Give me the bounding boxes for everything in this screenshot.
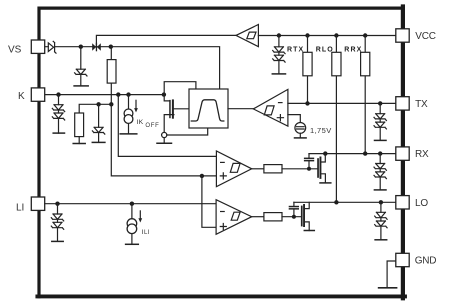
- wire LO clamp stack: [380, 202, 382, 240]
- wire RX line: [309, 153, 396, 155]
- wire shared plus to comparator2: [202, 176, 216, 227]
- node LO RLO junction: [334, 200, 338, 204]
- ground for K resistor: [73, 143, 85, 145]
- transil bidirectional clamp on VS: [92, 43, 101, 52]
- node shared plus junction: [200, 174, 204, 178]
- svg-text:RRX: RRX: [344, 46, 362, 53]
- pin K box: [31, 88, 44, 101]
- wire RX clamp stack: [379, 154, 381, 190]
- op-amp U2 comparator LI: [216, 200, 252, 235]
- wire resistor to M1 gate: [282, 168, 317, 170]
- IC body border: [37, 7, 404, 299]
- node RX RRX junction: [363, 151, 367, 155]
- wire filter box output: [228, 108, 253, 110]
- label IK OFF: [136, 119, 159, 129]
- svg-text:GND: GND: [415, 256, 437, 267]
- zener VCC clamp lower: [273, 55, 285, 62]
- transistor M1 gate bar: [317, 158, 319, 178]
- pin RX box: [396, 147, 409, 160]
- svg-text:IK: IK: [136, 119, 143, 126]
- wire K resistor bottom: [78, 137, 80, 144]
- svg-text:RX: RX: [415, 149, 429, 160]
- wire K line: [45, 94, 164, 96]
- wire M1 drain to RX: [321, 154, 325, 162]
- filter pulse curve: [191, 100, 224, 121]
- ground for RX clamp: [374, 189, 386, 191]
- wire transil tap up to inverter output rail: [96, 35, 236, 46]
- svg-text:OFF: OFF: [145, 123, 159, 129]
- svg-text:TX: TX: [415, 99, 428, 110]
- transistor M2 gate bar: [301, 206, 303, 227]
- svg-text:LI: LI: [144, 230, 150, 236]
- ground for VS clamp: [74, 85, 88, 87]
- capacitor C1 plate bottom: [304, 160, 314, 162]
- svg-text:RTX: RTX: [287, 46, 304, 53]
- transistor M0 channel bar: [172, 99, 174, 118]
- wire C1 to gate line: [308, 161, 310, 168]
- arrow ILI: [138, 211, 142, 223]
- wire LI clamp stack: [57, 204, 59, 242]
- arrow IK OFF: [134, 100, 138, 112]
- ground for VCC clamp: [272, 73, 285, 75]
- node C1 gate junction: [307, 167, 311, 171]
- node RX zener junction: [378, 151, 382, 155]
- transistor M1 channel bar: [320, 157, 322, 179]
- capacitor C1 plate top: [304, 158, 314, 160]
- op-amp U4 schmitt comparator TX: [253, 89, 288, 126]
- svg-text:VS: VS: [8, 45, 22, 56]
- resistor on K to node Y: [75, 113, 84, 137]
- wire node Y horizontal: [79, 104, 111, 113]
- zener VCC clamp upper: [273, 47, 285, 54]
- ground for reference: [295, 137, 307, 139]
- voltage source 1.75V: [295, 123, 306, 134]
- wire U1 output: [252, 168, 264, 170]
- zener LO clamp lower: [375, 221, 387, 228]
- ground for switch: [157, 142, 172, 144]
- wire K clamp stack: [58, 95, 60, 134]
- resistor on VS: [107, 60, 116, 84]
- wire GND pin to ground: [387, 261, 396, 288]
- ground for node Y zener: [92, 141, 105, 143]
- zener LI clamp lower: [51, 222, 63, 229]
- label ILI: [142, 229, 150, 236]
- wire TX line: [288, 102, 396, 104]
- node RRX top: [363, 33, 367, 37]
- zener TX clamp upper: [374, 114, 386, 121]
- wire C2 to gate line: [293, 210, 295, 217]
- op-amp U1 comparator K: [216, 151, 251, 187]
- wire VCC rail: [258, 35, 395, 37]
- node RX drain junction: [323, 151, 327, 155]
- diode D1 series VS: [48, 41, 56, 53]
- ground for LO clamp: [375, 239, 387, 241]
- node C2 gate junction: [292, 215, 296, 219]
- wire M2 drain to LO: [305, 202, 309, 208]
- ground for TX clamp: [375, 139, 387, 141]
- wire TX clamp stack: [379, 103, 381, 140]
- node Y junction dot: [109, 102, 113, 106]
- inverter U3 hysteresis buffer: [236, 25, 258, 47]
- transistor M0 gate bar: [169, 100, 171, 118]
- pin TX box: [396, 97, 409, 110]
- wire VS clamp down: [80, 47, 82, 86]
- wire U2 output: [252, 216, 264, 218]
- zener LI clamp upper: [51, 214, 63, 221]
- wire M0 drain to filter box: [174, 108, 189, 110]
- node RLO top: [334, 33, 338, 37]
- wire VS resistor bottom to node Y: [110, 83, 112, 104]
- current source ILI: [127, 219, 137, 234]
- wire node Y zener: [98, 104, 100, 142]
- node TX zener junction: [378, 101, 382, 105]
- resistor U1 output: [264, 165, 282, 173]
- pin GND box: [396, 253, 409, 266]
- ground for ILI: [126, 243, 139, 245]
- node Y zener tap: [96, 102, 100, 106]
- pin LI box: [31, 197, 44, 210]
- zener TX clamp lower: [374, 122, 386, 129]
- node K gate tap: [162, 92, 166, 96]
- svg-text:VCC: VCC: [415, 31, 436, 42]
- zener K clamp upper: [52, 105, 64, 112]
- node K-zener junction: [56, 92, 60, 96]
- zener node Y: [92, 127, 104, 134]
- wire RLO chain: [335, 36, 337, 203]
- wire U4 plus to reference: [288, 115, 300, 123]
- node LO zener junction: [379, 200, 383, 204]
- capacitor C2 plate bottom: [289, 208, 299, 210]
- svg-text:LO: LO: [415, 198, 428, 209]
- resistor RLO: [332, 52, 341, 76]
- zener K clamp lower: [52, 113, 64, 120]
- node K comparator tap: [116, 92, 120, 96]
- node LI zener junction: [55, 202, 59, 206]
- wire LI line: [45, 203, 216, 205]
- node RTX top: [305, 33, 309, 37]
- wire switch to filter box bottom: [167, 128, 208, 135]
- current source IK OFF: [124, 109, 133, 123]
- capacitor C2 plate top: [289, 206, 299, 208]
- resistor U2 output: [264, 213, 282, 221]
- node VCC clamp junction: [277, 33, 281, 37]
- resistor RRX: [361, 52, 370, 76]
- wire C1 top to RX line: [308, 154, 310, 158]
- ground for K clamp: [53, 132, 64, 134]
- wire M1 source to ground: [321, 174, 325, 183]
- wire IK OFF source: [128, 95, 130, 134]
- wire LO line: [294, 201, 396, 203]
- node VS resistor junction: [109, 45, 113, 49]
- filter box: [189, 89, 228, 128]
- transistor M2 channel bar: [303, 204, 305, 227]
- ground for GND pin: [379, 287, 397, 289]
- node K current source tap: [126, 92, 130, 96]
- switch contact circle: [162, 132, 167, 137]
- node TX RTX junction: [305, 101, 309, 105]
- wire K dot to mosfet gate: [164, 95, 169, 101]
- svg-text:RLO: RLO: [316, 46, 334, 53]
- ground for M2: [304, 230, 314, 232]
- zener RX clamp lower: [374, 172, 386, 179]
- wire VS resistor top: [110, 47, 112, 60]
- resistor RTX: [303, 52, 312, 76]
- wire RRX chain: [364, 36, 366, 154]
- wire K dot to filter box top: [164, 82, 196, 95]
- pin LO box: [396, 196, 409, 209]
- zener LO clamp upper: [375, 212, 387, 219]
- svg-text:LI: LI: [16, 202, 24, 213]
- wire ILI source: [131, 204, 133, 245]
- wire M0 source to switch: [164, 115, 174, 133]
- ground for M1: [320, 182, 331, 184]
- wire VCC clamp stack: [278, 36, 280, 74]
- svg-text:K: K: [18, 91, 25, 102]
- node VS-zener junction: [79, 45, 83, 49]
- pin VCC box: [396, 29, 409, 42]
- svg-text:1,75V: 1,75V: [310, 126, 332, 135]
- wire switch to ground: [163, 138, 165, 144]
- wire VS line: [45, 47, 220, 89]
- wire K to comparator1 minus: [118, 95, 216, 157]
- node LI current source tap: [130, 202, 134, 206]
- ground for IK OFF: [120, 133, 137, 135]
- wire M2 source to ground: [305, 222, 309, 231]
- ground for LI clamp: [52, 240, 63, 242]
- wire RTX chain: [307, 36, 309, 104]
- wire resistor to M2 gate: [282, 216, 301, 218]
- zener VS clamp: [75, 69, 87, 76]
- wire node Y to comparator1 plus: [111, 104, 216, 176]
- wire C2 top to LO line: [293, 202, 295, 206]
- zener RX clamp upper: [374, 164, 386, 171]
- wire reference to ground: [299, 133, 301, 138]
- pin VS box: [31, 40, 44, 53]
